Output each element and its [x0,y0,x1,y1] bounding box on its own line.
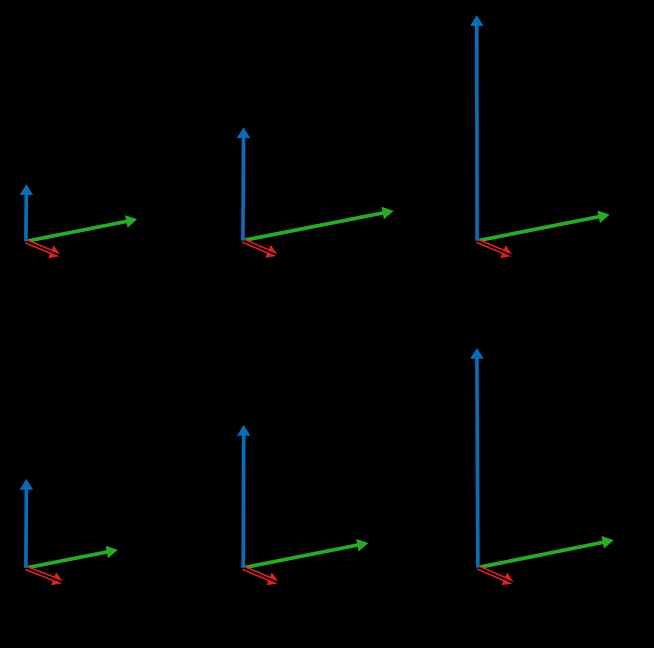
frame 3 x-axis line overlay (black) [477,241,515,257]
frame 6 x-axis arrow (red) [478,568,515,586]
frame 1 z-axis arrow (blue) [20,184,34,241]
frame 1 y-axis arrow (green) [26,215,137,241]
frame 2 x-axis line overlay (black) [243,241,280,257]
frame 6 z-axis arrow (blue) [470,348,484,568]
frame 4 y-axis arrow (green) [26,546,118,568]
frame 5 x-axis arrow (red) [243,568,279,586]
frame 2 z-axis arrow (blue) [237,127,251,240]
frame 2 y-axis arrow (green) [243,207,394,241]
frame 4 z-axis arrow (blue) [20,479,34,568]
frame 5 y-axis arrow (green) [243,539,368,568]
frame 1 x-axis line overlay (black) [26,241,63,256]
frame 3 x-axis arrow (red) [477,241,513,258]
frame 3 y-axis arrow (green) [477,211,609,241]
frame 4 x-axis line overlay (black) [26,568,66,584]
frame 6 x-axis line overlay (black) [478,568,517,585]
frame 1 x-axis arrow (red) [26,241,61,258]
frame 6 y-axis arrow (green) [478,536,614,568]
frame 3 z-axis arrow (blue) [470,15,484,241]
frame 2 x-axis arrow (red) [243,241,278,258]
frame 5 x-axis line overlay (black) [243,568,281,584]
frame 5 z-axis arrow (blue) [237,425,251,568]
frame 4 x-axis arrow (red) [26,568,64,585]
